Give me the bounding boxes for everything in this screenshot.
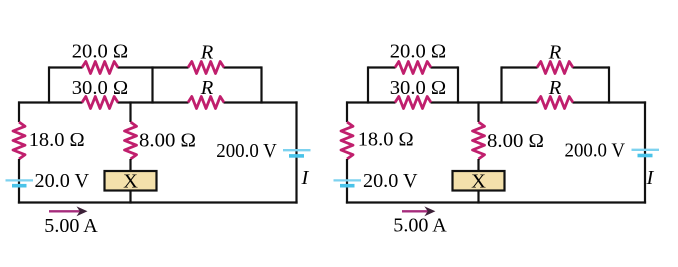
- wire: right circuit main rail segments (y=102.5): [346, 101, 646, 103]
- svg-text:R: R: [548, 77, 562, 99]
- resistor R lower (left circuit, main rail): [188, 97, 224, 109]
- resistor R upper (right circuit, top rail): [537, 62, 573, 74]
- battery 200.0 V (right circuit): long plate: [632, 149, 660, 151]
- resistor 8.00 ohm (right circuit, middle branch): [473, 122, 485, 159]
- wire: middle branch between resistor and box X (right circuit): [477, 159, 479, 171]
- wire: right stub of R block (right circuit): [608, 66, 610, 103]
- svg-text:I: I: [301, 167, 310, 189]
- wire: left branch between resistor and battery: [18, 159, 20, 204]
- resistor R lower (right circuit, main rail): [537, 97, 573, 109]
- resistor 20.0 ohm (left circuit, top rail): [82, 62, 118, 74]
- wire: middle branch lower segment (left circuit): [129, 191, 131, 204]
- wire: left circuit top rail segments (y=67.5): [49, 66, 262, 68]
- wire: middle branch lower segment (right circuit): [477, 191, 479, 204]
- svg-text:20.0 Ω: 20.0 Ω: [390, 40, 447, 62]
- svg-text:20.0 V: 20.0 V: [363, 170, 418, 192]
- svg-text:200.0 V: 200.0 V: [565, 140, 626, 162]
- box element X (left circuit): [105, 171, 157, 191]
- wire: left branch upper segment: [18, 101, 20, 122]
- wire: middle branch upper segment (left circuit): [129, 101, 131, 122]
- svg-text:20.0 V: 20.0 V: [35, 170, 90, 192]
- svg-text:X: X: [123, 171, 138, 193]
- wire: left circuit main rail segments (y=102.5): [18, 101, 298, 103]
- wire: right circuit top rail over R block (y=67.5): [502, 66, 610, 68]
- battery 200.0 V (left circuit): long plate: [283, 149, 311, 151]
- svg-text:R: R: [200, 41, 214, 63]
- wire: middle branch upper segment (right circuit): [477, 101, 479, 122]
- wire: left stub of 20/30 parallel block: [48, 66, 50, 103]
- svg-text:5.00 A: 5.00 A: [393, 214, 447, 236]
- wire: right branch upper segment (right circuit): [644, 101, 646, 203]
- box element X (right circuit): [453, 171, 505, 191]
- battery 200.0 V (left circuit): short plate: [289, 154, 304, 158]
- current arrow 5.00 A (right circuit): [402, 206, 435, 216]
- battery 20.0 V (right circuit): short plate: [340, 184, 355, 188]
- wire: bottom rail (left circuit): [18, 201, 298, 203]
- resistor 30.0 ohm (right circuit, main rail): [395, 97, 431, 109]
- wire: left stub of R block (right circuit): [500, 66, 502, 103]
- resistor 30.0 ohm (left circuit, main rail): [82, 97, 118, 109]
- wire: middle branch between resistor and box X: [129, 159, 131, 171]
- battery 20.0 V (right circuit): long plate: [334, 179, 362, 181]
- svg-text:20.0 Ω: 20.0 Ω: [72, 40, 129, 62]
- wire: left branch between resistor and battery (right circuit): [346, 159, 348, 204]
- wire: shared middle stub: [151, 66, 153, 103]
- resistor 20.0 ohm (right circuit, top rail): [395, 62, 431, 74]
- resistor 18.0 ohm (left circuit, left branch): [13, 122, 25, 159]
- current arrow 5.00 A (left circuit): [49, 206, 88, 216]
- svg-text:R: R: [548, 41, 562, 63]
- svg-text:8.00 Ω: 8.00 Ω: [139, 130, 196, 152]
- svg-text:R: R: [200, 77, 214, 99]
- svg-text:30.0 Ω: 30.0 Ω: [390, 77, 447, 99]
- wire: right circuit top rail over 20/30 block (y=67.5): [368, 66, 458, 68]
- svg-text:200.0 V: 200.0 V: [216, 140, 277, 162]
- svg-text:8.00 Ω: 8.00 Ω: [487, 130, 544, 152]
- svg-text:18.0 Ω: 18.0 Ω: [29, 129, 85, 151]
- battery 200.0 V (right circuit): short plate: [638, 154, 653, 158]
- wire: left stub of 20/30 block (right circuit): [367, 66, 369, 103]
- svg-text:18.0 Ω: 18.0 Ω: [358, 129, 414, 151]
- resistor 8.00 ohm (left circuit, middle branch): [125, 122, 137, 159]
- battery 20.0 V (left circuit): long plate: [6, 179, 34, 181]
- wire: right branch upper segment (left circuit): [295, 101, 297, 203]
- wire: left branch upper segment (right circuit): [346, 101, 348, 122]
- resistor R upper (left circuit, top rail): [188, 62, 224, 74]
- svg-text:I: I: [646, 167, 655, 189]
- svg-text:X: X: [471, 171, 486, 193]
- wire: right stub of 20/30 block (right circuit): [457, 66, 459, 103]
- battery 20.0 V (left circuit): short plate: [12, 184, 27, 188]
- wire: bottom rail (right circuit): [346, 201, 646, 203]
- svg-text:30.0 Ω: 30.0 Ω: [72, 77, 129, 99]
- resistor 18.0 ohm (right circuit, left branch): [341, 122, 353, 159]
- wire: right stub of R parallel block: [260, 66, 262, 103]
- svg-text:5.00 A: 5.00 A: [44, 215, 98, 237]
